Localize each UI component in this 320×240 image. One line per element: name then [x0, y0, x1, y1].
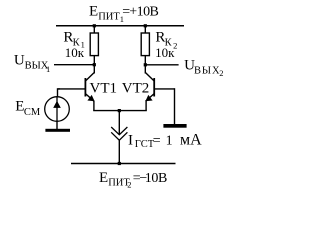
- wire: VT2 base to ground: [174, 88, 176, 124]
- current source E_sm circle: [45, 97, 70, 122]
- junction dot: rail to R_K1: [93, 24, 96, 27]
- current source I_gst chevron 1: [111, 127, 127, 135]
- VT2 collector diagonal: [146, 73, 154, 81]
- current source arrow (up): [53, 101, 61, 108]
- power rail +10V (top): [56, 25, 184, 27]
- VT1 emitter diagonal: [86, 94, 94, 101]
- junction dot: output node 2: [144, 63, 147, 66]
- wire: output 2 stub: [145, 64, 178, 66]
- power rail -10V (bottom): [71, 163, 176, 165]
- ground bar (E_sm): [45, 129, 70, 132]
- VT2 emitter arrow: [145, 95, 152, 101]
- svg-text:10к: 10к: [65, 45, 85, 60]
- current source internal line: [56, 97, 58, 122]
- wire: emitter node down to current source: [118, 111, 120, 135]
- resistor R_K1: [90, 33, 98, 56]
- wire: rail to R_K1 top: [93, 26, 95, 33]
- transistor VT1: [85, 73, 94, 111]
- junction dot: bottom rail: [118, 162, 121, 165]
- ground bar (VT2 base): [163, 124, 186, 128]
- wire: output 1 stub: [54, 64, 94, 66]
- wire: VT2 base lead: [155, 88, 175, 90]
- current source I_gst chevron 2: [111, 132, 127, 140]
- VT1 base bar: [84, 78, 86, 97]
- wire: E_sm bottom to ground: [56, 121, 58, 129]
- wire: current source to bottom rail: [118, 140, 120, 163]
- wire: rail to R_K2 top: [144, 26, 146, 33]
- wire: E_sm top lead up and to VT1 base: [58, 89, 61, 97]
- transistor VT2: [145, 73, 154, 111]
- wire: R_K2 bottom to VT2 collector: [144, 56, 146, 74]
- resistor R_K2: [141, 33, 149, 56]
- wire: R_K1 bottom to VT1 collector: [93, 56, 95, 74]
- junction dot: rail to R_K2: [144, 24, 147, 27]
- junction dot: emitter node: [118, 109, 121, 112]
- VT2 base bar: [153, 78, 155, 97]
- wire: emitter bus: [93, 110, 147, 112]
- VT2 emitter diagonal: [146, 94, 154, 101]
- junction dot: output node 1: [93, 63, 96, 66]
- svg-text:10к: 10к: [155, 45, 175, 60]
- VT1 emitter down wire: [93, 101, 95, 111]
- wire: VT1 base lead: [58, 88, 86, 90]
- VT2 emitter down wire: [145, 101, 147, 111]
- VT1 collector diagonal: [86, 73, 94, 81]
- VT1 emitter arrow: [87, 95, 94, 101]
